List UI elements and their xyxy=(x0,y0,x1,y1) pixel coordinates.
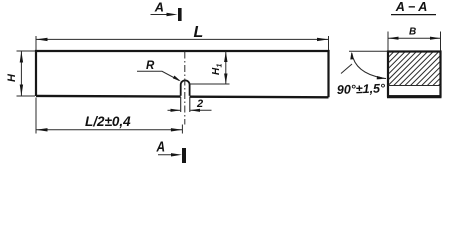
leader and label R xyxy=(137,71,179,80)
svg-text:A: A xyxy=(154,0,164,15)
dimension L xyxy=(36,36,329,50)
svg-text:R: R xyxy=(146,60,155,72)
specimen bar outline xyxy=(36,51,329,97)
svg-text:2: 2 xyxy=(196,98,203,110)
svg-text:H: H xyxy=(6,73,18,82)
dimension 2 (notch width) xyxy=(168,109,181,111)
angle 90°±1,5° annotation xyxy=(349,50,388,52)
svg-text:1: 1 xyxy=(217,64,224,68)
svg-text:L/2±0,4: L/2±0,4 xyxy=(85,114,131,129)
svg-text:L: L xyxy=(194,24,204,41)
dimension H1 xyxy=(189,83,229,85)
section square outline xyxy=(388,52,441,97)
notch root line in section xyxy=(388,85,441,87)
leader to 90° label xyxy=(341,64,352,74)
svg-text:A − A: A − A xyxy=(395,0,428,14)
svg-text:A: A xyxy=(156,139,165,156)
dimension B xyxy=(388,32,441,51)
hatching of section xyxy=(384,20,452,106)
dimension L/2±0,4 xyxy=(36,98,182,134)
label H1 (rotated) xyxy=(211,64,224,76)
svg-text:90°±1,5°: 90°±1,5° xyxy=(337,81,387,97)
dimension H xyxy=(17,51,36,96)
notch extension lines (for dim 2) xyxy=(181,97,190,112)
centerline of notch (dash-dot) xyxy=(184,52,186,125)
U-notch with radius R xyxy=(181,80,190,95)
svg-text:B: B xyxy=(409,27,416,38)
